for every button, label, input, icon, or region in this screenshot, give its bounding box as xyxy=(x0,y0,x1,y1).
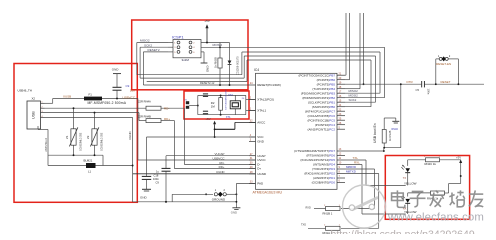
svg-text:www.elecfans.com: www.elecfans.com xyxy=(387,211,484,223)
svg-text:PAD: PAD xyxy=(257,182,264,186)
svg-text:GND: GND xyxy=(140,195,148,199)
svg-text:XT2: XT2 xyxy=(228,93,233,97)
svg-text:GND: GND xyxy=(206,66,210,74)
svg-text:USB boot En: USB boot En xyxy=(373,123,377,143)
svg-text:http://blog.csdn.net/p34292649: http://blog.csdn.net/p34292649 xyxy=(331,228,475,234)
svg-text:(SS/PCINT0)PB0: (SS/PCINT0)PB0 xyxy=(312,105,336,109)
svg-text:MF-MSMF050-2 500mA: MF-MSMF050-2 500mA xyxy=(88,101,127,105)
svg-text:RXL: RXL xyxy=(354,161,360,165)
svg-text:(T1/PCINT4)PB4: (T1/PCINT4)PB4 xyxy=(312,87,335,91)
svg-text:RN4C 1k: RN4C 1k xyxy=(425,162,437,166)
svg-text:MOSI2: MOSI2 xyxy=(213,43,223,47)
svg-text:TXL: TXL xyxy=(353,156,359,160)
svg-text:ICSP1: ICSP1 xyxy=(172,35,184,40)
svg-text:X2: X2 xyxy=(32,97,36,101)
svg-text:RESET2: RESET2 xyxy=(148,48,160,52)
svg-text:GND: GND xyxy=(231,211,237,215)
svg-text:(PCINT5)PB5: (PCINT5)PB5 xyxy=(317,82,336,86)
svg-text:RN1D: RN1D xyxy=(392,128,399,131)
svg-text:UVCC: UVCC xyxy=(257,158,266,162)
svg-text:USBVCC: USBVCC xyxy=(212,156,224,160)
svg-text:RXD: RXD xyxy=(306,207,311,210)
svg-text:CG0603MLC-05E: CG0603MLC-05E xyxy=(81,132,83,151)
svg-text:L1: L1 xyxy=(88,170,92,174)
svg-text:CG0603MLC-05E: CG0603MLC-05E xyxy=(102,132,104,151)
svg-text:(PDO/MISO/PCINT3)PB3: (PDO/MISO/PCINT3)PB3 xyxy=(301,91,336,95)
svg-text:SCK2: SCK2 xyxy=(144,43,152,47)
svg-text:+5V: +5V xyxy=(205,117,210,121)
svg-text:M8TXD: M8TXD xyxy=(346,170,356,174)
svg-text:CSTCE16M0V53-R0: CSTCE16M0V53-R0 xyxy=(226,89,228,110)
svg-text:D+: D+ xyxy=(257,167,261,171)
svg-text:C9: C9 xyxy=(156,181,160,185)
svg-text:C5: C5 xyxy=(416,88,420,92)
svg-text:DTR: DTR xyxy=(407,80,414,84)
svg-text:(OC0B/INT0)PD0: (OC0B/INT0)PD0 xyxy=(312,181,336,185)
svg-text:TX: TX xyxy=(403,176,407,180)
svg-text:(TXD1/INT3)PD3: (TXD1/INT3)PD3 xyxy=(312,167,335,171)
svg-text:AVCC: AVCC xyxy=(257,121,266,125)
svg-text:(INT4/ICP1/CLK0)PC7: (INT4/ICP1/CLK0)PC7 xyxy=(305,109,336,113)
svg-text:SCK2: SCK2 xyxy=(349,98,357,102)
svg-text:F1: F1 xyxy=(89,92,93,96)
svg-text:MISO2: MISO2 xyxy=(140,39,150,43)
svg-text:1k RN2B: 1k RN2B xyxy=(388,130,392,141)
svg-text:Z1: Z1 xyxy=(65,135,69,139)
svg-text:RD-: RD- xyxy=(164,106,169,110)
svg-text:(RXD1/AIN1/INT2)PD2: (RXD1/AIN1/INT2)PD2 xyxy=(304,172,335,176)
svg-text:(PCINT9/OC1B)PC5: (PCINT9/OC1B)PC5 xyxy=(307,118,335,122)
svg-text:M8RXD: M8RXD xyxy=(346,165,356,169)
svg-text:RESET: RESET xyxy=(441,80,451,84)
svg-text:XTAL2(PC0): XTAL2(PC0) xyxy=(257,98,274,102)
svg-text:(RTS/AIN5/INT6)PD6: (RTS/AIN5/INT6)PD6 xyxy=(306,154,335,158)
svg-text:3x2M: 3x2M xyxy=(182,58,190,62)
svg-text:IC4: IC4 xyxy=(254,68,259,72)
svg-text:YELLOW: YELLOW xyxy=(404,181,417,185)
svg-text:ATMEGA16U2-MU: ATMEGA16U2-MU xyxy=(253,190,283,194)
svg-text:C9: C9 xyxy=(126,84,130,88)
svg-text:XTAL1: XTAL1 xyxy=(257,109,266,113)
svg-text:GND: GND xyxy=(257,140,265,144)
svg-text:RD+: RD+ xyxy=(164,117,170,121)
svg-text:MOSI2: MOSI2 xyxy=(349,94,359,98)
svg-text:RD+: RD+ xyxy=(219,165,225,169)
svg-text:100n: 100n xyxy=(153,177,159,181)
svg-text:10n: 10n xyxy=(130,89,135,93)
svg-text:(XCK/AIN4/PCINT12)PD5: (XCK/AIN4/PCINT12)PD5 xyxy=(300,158,335,162)
svg-text:(OC1A/PCINT8)PC6: (OC1A/PCINT8)PC6 xyxy=(307,114,335,118)
svg-text:RESET(PC1/DW): RESET(PC1/DW) xyxy=(257,83,281,87)
svg-text:GND: GND xyxy=(112,68,120,72)
svg-text:RN1B 1: RN1B 1 xyxy=(323,212,333,216)
svg-text:VCC: VCC xyxy=(257,135,264,139)
svg-text:CD1206-S01575: CD1206-S01575 xyxy=(236,56,239,75)
svg-text:(AIN2/PCINT11)PC2: (AIN2/PCINT11)PC2 xyxy=(308,127,336,131)
svg-text:MISO2: MISO2 xyxy=(349,89,359,93)
svg-text:+5V: +5V xyxy=(456,155,461,159)
svg-text:1M: 1M xyxy=(211,105,216,109)
svg-text:+5V: +5V xyxy=(204,19,211,23)
svg-text:XT1: XT1 xyxy=(226,115,231,119)
svg-text:22R RN4A: 22R RN4A xyxy=(138,100,151,104)
svg-text:RESET-EN: RESET-EN xyxy=(436,62,451,66)
svg-text:(CTS/HWB/AIN6/T0/INT7)PD7: (CTS/HWB/AIN6/T0/INT7)PD7 xyxy=(294,149,335,153)
svg-text:BLM21: BLM21 xyxy=(84,159,93,163)
svg-text:Z2: Z2 xyxy=(86,135,90,139)
svg-text:22R RN4B: 22R RN4B xyxy=(138,114,151,118)
svg-text:(AIN0/INT1)PD1: (AIN0/INT1)PD1 xyxy=(313,176,335,180)
svg-text:USB: USB xyxy=(32,111,36,119)
svg-text:(SCLK/PCINT1)PB1: (SCLK/PCINT1)PB1 xyxy=(308,100,335,104)
svg-text:(PCINT6)PB6: (PCINT6)PB6 xyxy=(317,78,336,82)
svg-text:UGND: UGND xyxy=(216,170,225,174)
svg-text:(PCINT10)PC4: (PCINT10)PC4 xyxy=(315,123,336,127)
svg-text:(PCINT7/OC0A/OC1C)PB7: (PCINT7/OC0A/OC1C)PB7 xyxy=(298,73,335,77)
svg-text:1k RN3B: 1k RN3B xyxy=(214,57,218,68)
svg-text:USBVCC: USBVCC xyxy=(123,95,136,99)
svg-text:UGND: UGND xyxy=(257,172,267,176)
svg-text:RESET2-12: RESET2-12 xyxy=(200,81,215,85)
svg-text:UGND: UGND xyxy=(128,131,132,140)
svg-text:TXD: TXD xyxy=(301,223,306,226)
svg-text:XUSB: XUSB xyxy=(63,95,71,99)
svg-text:100n: 100n xyxy=(427,89,431,95)
svg-text:USBSHIELD: USBSHIELD xyxy=(45,138,48,152)
svg-text:(INT5/AIN3)PD4: (INT5/AIN3)PD4 xyxy=(313,163,335,167)
svg-text:(PDI/MOSI/PCINT2)PB2: (PDI/MOSI/PCINT2)PB2 xyxy=(302,96,335,100)
svg-text:USB-B_TH: USB-B_TH xyxy=(18,88,32,92)
svg-text:GROUND: GROUND xyxy=(212,197,226,201)
